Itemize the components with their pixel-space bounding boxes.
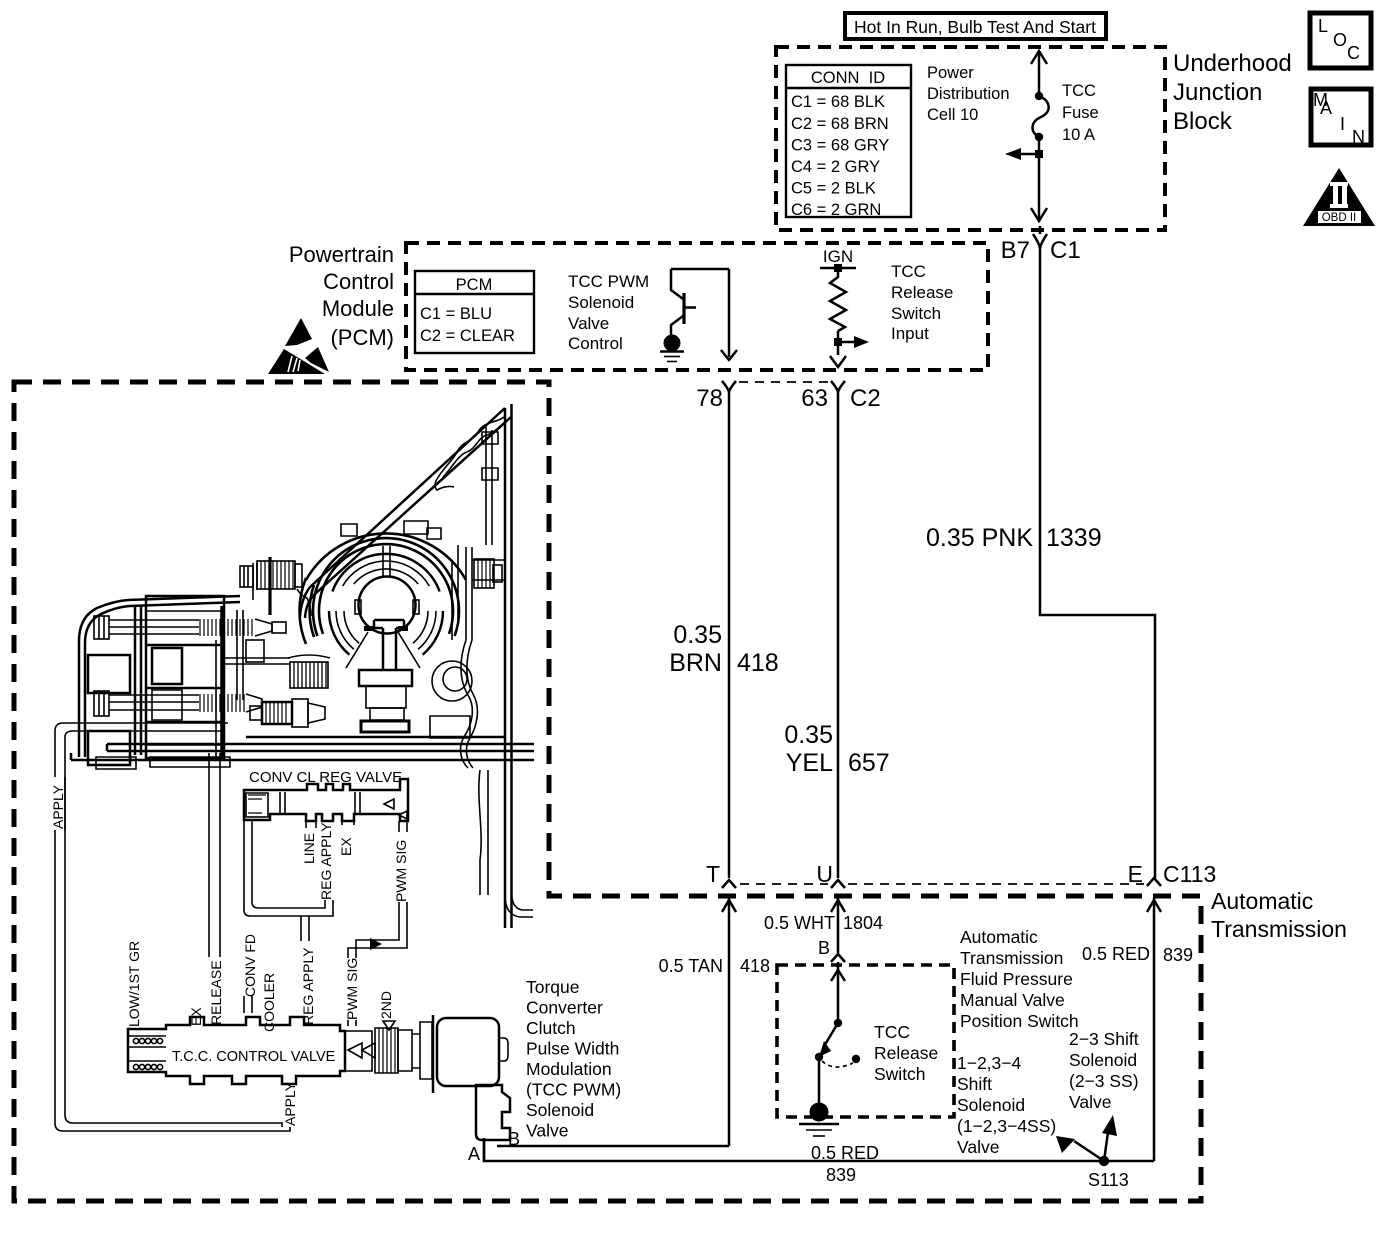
PWM SIG pipe from reg valve xyxy=(344,821,409,1026)
right wall wavy section xyxy=(461,640,478,768)
svg-text:Control: Control xyxy=(323,269,394,294)
torque converter cover arcs xyxy=(299,533,466,644)
TCC release switch xyxy=(815,1019,860,1105)
TCC PWM solenoid body xyxy=(433,1015,510,1161)
svg-text:C2 = 68 BRN: C2 = 68 BRN xyxy=(791,115,889,133)
label: Automatic Transmission xyxy=(1211,888,1347,942)
svg-text:1−2,3−4: 1−2,3−4 xyxy=(957,1053,1021,1073)
fuse TCC 10A symbol xyxy=(1031,51,1049,219)
RELEASE pipe xyxy=(208,753,224,1025)
svg-text:657: 657 xyxy=(848,749,890,777)
connector link dashed (78 to 63) xyxy=(739,381,828,383)
svg-text:L: L xyxy=(1318,16,1328,36)
PCM ID table xyxy=(415,271,534,353)
text: Power Distribution Cell 10 xyxy=(927,64,1010,124)
node IGN xyxy=(820,247,856,272)
down arrow to B7 xyxy=(1031,208,1047,221)
svg-text:Converter: Converter xyxy=(526,998,603,1018)
svg-text:Modulation: Modulation xyxy=(526,1059,612,1079)
svg-text:BRN: BRN xyxy=(669,649,722,677)
connector pin 78 xyxy=(696,381,736,412)
svg-text:Solenoid: Solenoid xyxy=(568,293,634,312)
svg-text:Manual Valve: Manual Valve xyxy=(960,990,1065,1010)
wire 0.35 BRN 418 xyxy=(728,392,731,878)
svg-text:A: A xyxy=(1320,98,1332,118)
svg-text:Valve: Valve xyxy=(957,1137,999,1157)
svg-text:Pulse Width: Pulse Width xyxy=(526,1039,619,1059)
wire 0.35 PNK 1339 xyxy=(1040,226,1155,878)
svg-text:U: U xyxy=(816,861,833,887)
svg-text:Transmission: Transmission xyxy=(960,948,1063,968)
svg-text:(2−3 SS): (2−3 SS) xyxy=(1069,1071,1139,1091)
housing right edge xyxy=(505,404,512,928)
svg-text:RELEASE: RELEASE xyxy=(208,960,224,1025)
svg-text:Solenoid: Solenoid xyxy=(1069,1050,1137,1070)
left column boxes xyxy=(88,606,141,765)
PCM dashed box xyxy=(406,243,988,370)
right side bolt xyxy=(474,559,502,588)
text: 1-2,3-4 Shift Solenoid (1-2,3-4SS) Valve xyxy=(957,1053,1056,1157)
svg-text:Block: Block xyxy=(1173,108,1233,135)
wire Q1 collector to pin 78 xyxy=(721,269,737,360)
svg-text:Power: Power xyxy=(927,64,974,82)
svg-text:Cell 10: Cell 10 xyxy=(927,106,978,124)
arrow into transmission (T wire) xyxy=(722,898,736,1146)
svg-text:Valve: Valve xyxy=(1069,1092,1111,1112)
T.C.C. CONTROL VALVE body xyxy=(128,1017,345,1084)
text: 2-3 Shift Solenoid (2-3 SS) Valve xyxy=(1069,1029,1139,1112)
svg-text:O: O xyxy=(1333,30,1347,50)
wire 0.35 YEL 657 xyxy=(837,392,840,878)
svg-text:Switch: Switch xyxy=(874,1064,926,1084)
CONV FD pipe xyxy=(242,934,258,1013)
svg-text:APPLY: APPLY xyxy=(50,784,66,829)
svg-text:S113: S113 xyxy=(1088,1170,1129,1190)
svg-text:(1−2,3−4SS): (1−2,3−4SS) xyxy=(957,1116,1056,1136)
hub stem and pedestal xyxy=(346,620,420,720)
svg-text:PWM SIG: PWM SIG xyxy=(344,958,360,1020)
svg-text:Powertrain: Powertrain xyxy=(289,242,394,267)
pilot valve center xyxy=(246,640,325,727)
svg-text:COOLER: COOLER xyxy=(261,973,277,1032)
svg-text:Valve: Valve xyxy=(526,1121,568,1141)
svg-text:0.5 TAN: 0.5 TAN xyxy=(659,956,723,976)
svg-text:Input: Input xyxy=(891,324,929,343)
bearing spiral circles xyxy=(432,661,472,701)
MAIN reference box xyxy=(1311,89,1371,147)
wire 0.5 TAN 418 label xyxy=(659,956,770,976)
OBD II symbol xyxy=(1303,168,1375,226)
svg-text:Transmission: Transmission xyxy=(1211,916,1347,942)
svg-text:(PCM): (PCM) xyxy=(330,325,394,350)
resistor (TCC release switch pull-up) xyxy=(830,268,846,331)
svg-text:B: B xyxy=(818,938,830,958)
svg-text:Torque: Torque xyxy=(526,977,580,997)
label 0.35 YEL 657 xyxy=(784,721,889,777)
svg-text:0.35: 0.35 xyxy=(784,721,833,749)
svg-text:Module: Module xyxy=(322,296,394,321)
CONN ID table xyxy=(786,65,911,219)
svg-text:1804: 1804 xyxy=(843,913,883,933)
svg-text:C2: C2 xyxy=(850,385,881,412)
transistor Q1 TCC PWM driver xyxy=(671,269,729,336)
svg-text:Distribution: Distribution xyxy=(927,85,1010,103)
svg-text:T.C.C. CONTROL VALVE: T.C.C. CONTROL VALVE xyxy=(172,1049,336,1065)
base blocks xyxy=(361,721,409,732)
svg-text:Control: Control xyxy=(568,334,623,353)
connector B into TCC release switch xyxy=(818,938,845,1023)
connector B7/C1 xyxy=(1001,234,1081,264)
fuse output tap arrow (left) xyxy=(1005,148,1043,160)
TCC release switch dashed box xyxy=(777,965,954,1117)
lower right wall xyxy=(479,770,533,917)
connector link dashed (T-U-E) xyxy=(740,883,1144,885)
svg-text:10 A: 10 A xyxy=(1062,126,1095,144)
stud rod 2 xyxy=(94,691,262,716)
svg-text:Underhood: Underhood xyxy=(1173,50,1292,77)
svg-text:Clutch: Clutch xyxy=(526,1018,576,1038)
base plate lines xyxy=(71,737,534,760)
svg-text:Hot In Run, Bulb Test And Star: Hot In Run, Bulb Test And Start xyxy=(854,17,1096,37)
CONV CL REG VALVE body xyxy=(244,779,408,821)
svg-text:Automatic: Automatic xyxy=(1211,888,1313,914)
svg-text:C3 = 68 GRY: C3 = 68 GRY xyxy=(791,137,889,155)
wire solenoid B to T wire xyxy=(497,1145,729,1148)
underhood junction block dashed box xyxy=(776,47,1165,230)
svg-text:0.5 WHT: 0.5 WHT xyxy=(764,913,835,933)
svg-text:PWM SIG: PWM SIG xyxy=(393,840,409,902)
label: Underhood Junction Block xyxy=(1173,50,1292,135)
clutch plate arcs inner xyxy=(336,561,436,649)
transistor emitter ground xyxy=(660,335,684,362)
svg-text:C: C xyxy=(1347,43,1360,63)
spring comb stack xyxy=(288,655,330,688)
svg-text:EX: EX xyxy=(338,837,354,856)
svg-text:LOW/1ST GR: LOW/1ST GR xyxy=(126,941,142,1027)
switch ground xyxy=(799,1103,839,1137)
svg-text:Fluid Pressure: Fluid Pressure xyxy=(960,969,1073,989)
svg-text:0.35: 0.35 xyxy=(673,621,722,649)
svg-text:C1: C1 xyxy=(1050,237,1081,264)
center bolt assembly xyxy=(240,557,311,616)
svg-text:TCC: TCC xyxy=(874,1022,910,1042)
svg-text:A: A xyxy=(468,1144,480,1164)
connector T xyxy=(706,861,736,888)
svg-text:Switch: Switch xyxy=(891,304,941,323)
svg-text:I: I xyxy=(1340,114,1345,134)
banner: Hot In Run, Bulb Test And Start xyxy=(845,13,1106,39)
svg-text:TCC: TCC xyxy=(891,262,926,281)
REG APPLY pipe from reg valve xyxy=(244,820,333,1025)
text: Torque Converter Clutch Pulse Width Modulation (TCC PWM) Solenoid Valve xyxy=(526,977,621,1141)
clutch plate arcs middle xyxy=(329,554,443,655)
svg-text:OBD II: OBD II xyxy=(1322,212,1357,224)
svg-text:E: E xyxy=(1128,861,1143,887)
svg-text:Shift: Shift xyxy=(957,1074,992,1094)
svg-text:C5 = 2 BLK: C5 = 2 BLK xyxy=(791,180,876,198)
svg-text:LINE: LINE xyxy=(301,833,317,864)
svg-text:0.5 RED: 0.5 RED xyxy=(1082,944,1150,964)
svg-text:839: 839 xyxy=(1163,945,1193,965)
text: TCC Release Switch xyxy=(874,1022,938,1084)
svg-text:REG APPLY: REG APPLY xyxy=(300,947,316,1025)
arrow into transmission (E wire) xyxy=(1147,898,1161,1161)
svg-text:63: 63 xyxy=(801,385,828,412)
svg-text:Automatic: Automatic xyxy=(960,927,1038,947)
LINE port and label xyxy=(301,821,317,864)
solenoid pin labels A and B xyxy=(468,1129,520,1164)
svg-text:C113: C113 xyxy=(1163,861,1216,887)
svg-text:C4 = 2 GRY: C4 = 2 GRY xyxy=(791,158,880,176)
svg-text:T: T xyxy=(706,861,720,887)
svg-text:418: 418 xyxy=(740,956,770,976)
svg-text:839: 839 xyxy=(826,1165,856,1185)
svg-text:2ND: 2ND xyxy=(378,991,394,1019)
svg-text:C6 = 2 GRN: C6 = 2 GRN xyxy=(791,201,881,219)
resistor tap node and arrow xyxy=(834,331,869,355)
svg-text:0.35 PNK: 0.35 PNK xyxy=(926,524,1033,552)
svg-text:Fuse: Fuse xyxy=(1062,104,1099,122)
automatic transmission dashed box (L-shape) xyxy=(14,382,1201,1201)
LOC reference box xyxy=(1310,13,1371,68)
svg-text:CONN ID: CONN ID xyxy=(811,69,885,87)
svg-text:REG APPLY: REG APPLY xyxy=(318,822,334,900)
housing diagonal top edge xyxy=(300,408,511,618)
right wall extra lines xyxy=(452,545,505,640)
arrow into transmission (U wire) xyxy=(831,898,845,954)
text: Automatic Transmission Fluid Pressure Manual Valve Position Switch xyxy=(960,927,1079,1031)
label: Powertrain Control Module (PCM) xyxy=(289,242,394,350)
text: TCC Release Switch Input xyxy=(891,262,953,343)
svg-text:YEL: YEL xyxy=(786,749,833,777)
svg-text:0.5 RED: 0.5 RED xyxy=(811,1143,879,1163)
svg-text:CONV FD: CONV FD xyxy=(242,934,258,997)
label 0.35 PNK 1339 xyxy=(926,524,1102,552)
svg-text:TCC PWM: TCC PWM xyxy=(568,272,649,291)
EX port (upper label) xyxy=(338,821,354,856)
torque converter cover tabs xyxy=(341,521,441,539)
svg-text:2−3 Shift: 2−3 Shift xyxy=(1069,1029,1139,1049)
svg-text:C2 = CLEAR: C2 = CLEAR xyxy=(420,327,515,345)
svg-text:N: N xyxy=(1352,127,1365,147)
svg-text:Solenoid: Solenoid xyxy=(526,1100,594,1120)
label 0.35 BRN 418 xyxy=(669,621,779,677)
down arrow to 63 xyxy=(830,356,846,367)
svg-text:78: 78 xyxy=(696,385,723,412)
connector U xyxy=(816,861,845,888)
left bottom step shapes xyxy=(96,757,230,769)
svg-text:1339: 1339 xyxy=(1046,524,1102,552)
connector E / C113 xyxy=(1128,861,1217,887)
right wall columns xyxy=(466,426,498,640)
svg-text:Valve: Valve xyxy=(568,314,609,333)
middle cylinder walls xyxy=(224,610,290,700)
svg-text:PCM: PCM xyxy=(456,276,493,294)
ESD warning symbol xyxy=(268,318,329,374)
left block inner lines xyxy=(146,611,224,745)
svg-text:C1 = 68 BLK: C1 = 68 BLK xyxy=(791,93,885,111)
clutch pack block xyxy=(146,596,224,758)
svg-text:(TCC PWM): (TCC PWM) xyxy=(526,1080,621,1100)
svg-text:TCC: TCC xyxy=(1062,82,1096,100)
svg-text:APPLY: APPLY xyxy=(282,1081,298,1126)
label 0.5 RED / 839 (bottom) xyxy=(811,1143,879,1185)
svg-text:Release: Release xyxy=(891,283,953,302)
svg-text:Solenoid: Solenoid xyxy=(957,1095,1025,1115)
wire 0.5 WHT 1804 label xyxy=(764,913,883,933)
text: TCC Fuse 10 A xyxy=(1062,82,1099,144)
bell housing left outline xyxy=(79,596,240,757)
svg-text:IGN: IGN xyxy=(823,247,853,266)
APPLY pipe (left) xyxy=(50,723,290,1131)
svg-text:C1 = BLU: C1 = BLU xyxy=(420,305,492,323)
control valve spool and armature xyxy=(345,1022,432,1079)
svg-text:Position Switch: Position Switch xyxy=(960,1011,1079,1031)
wire 0.5 RED 839 bottom run (A to E) xyxy=(484,1138,1154,1161)
connector pin 63 / C2 xyxy=(801,381,880,412)
svg-text:Junction: Junction xyxy=(1173,79,1262,106)
text: TCC PWM Solenoid Valve Control xyxy=(568,272,649,353)
turbine hub xyxy=(355,546,419,634)
pressure plate dark line xyxy=(220,606,224,757)
housing top wavy inner contour xyxy=(435,417,504,490)
svg-text:Release: Release xyxy=(874,1043,938,1063)
wire 0.5 RED 839 label (right) xyxy=(1082,944,1193,965)
splice S113 xyxy=(1056,1115,1129,1190)
svg-text:418: 418 xyxy=(737,649,779,677)
stud rod 1 xyxy=(94,616,286,639)
svg-text:B7: B7 xyxy=(1001,237,1030,264)
